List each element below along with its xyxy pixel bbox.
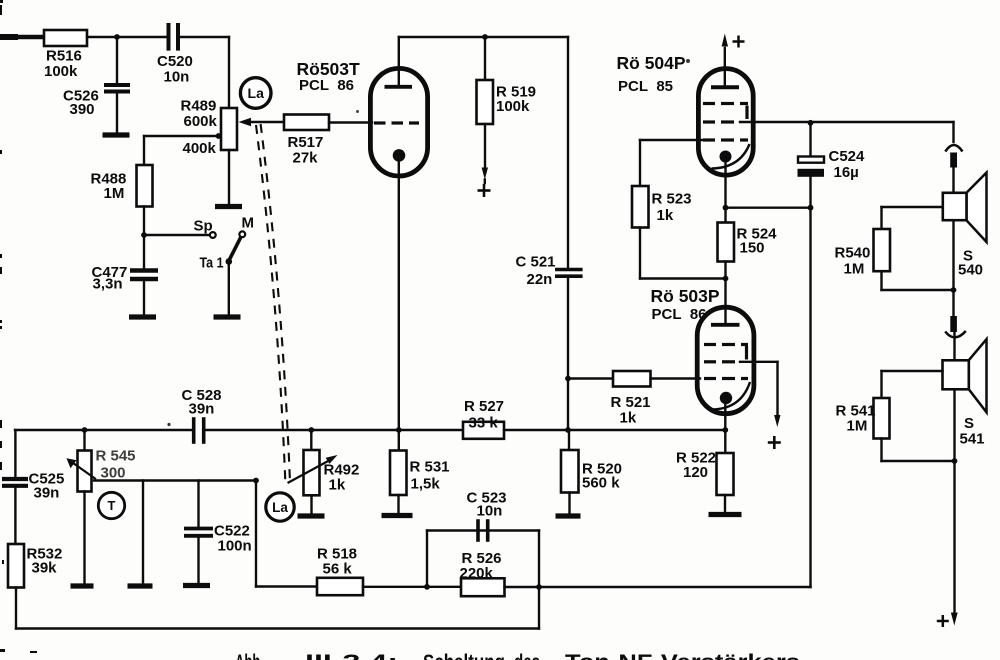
svg-text:des: des — [514, 651, 540, 660]
svg-text:1k: 1k — [329, 477, 346, 494]
svg-text:Ta 1: Ta 1 — [200, 255, 224, 272]
svg-text:150: 150 — [740, 240, 765, 257]
svg-text:R 523: R 523 — [652, 191, 692, 208]
svg-text:39n: 39n — [189, 401, 215, 418]
svg-text:C520: C520 — [157, 53, 193, 70]
svg-text:22n: 22n — [527, 271, 553, 288]
svg-text:120: 120 — [683, 464, 708, 481]
svg-text:300: 300 — [101, 465, 126, 482]
svg-text:PCL 85: PCL 85 — [618, 78, 673, 95]
svg-text:540: 540 — [958, 262, 983, 279]
svg-text:R 545: R 545 — [96, 448, 136, 465]
svg-text:33 k: 33 k — [469, 415, 499, 432]
svg-text:220k: 220k — [460, 565, 494, 582]
svg-text:400k: 400k — [183, 140, 217, 157]
svg-text:PCL 86: PCL 86 — [299, 77, 354, 94]
svg-text:3,3n: 3,3n — [93, 276, 123, 293]
svg-text:Rö 503P: Rö 503P — [651, 286, 720, 306]
svg-text:1k: 1k — [657, 207, 674, 224]
svg-text:PCL 86: PCL 86 — [652, 306, 707, 323]
svg-text:100n: 100n — [218, 538, 252, 555]
svg-text:39n: 39n — [34, 485, 60, 502]
svg-text:560 k: 560 k — [582, 475, 620, 492]
svg-text:R 521: R 521 — [611, 394, 651, 411]
svg-text:100k: 100k — [496, 98, 530, 115]
svg-text:1,5k: 1,5k — [411, 476, 441, 493]
svg-text:Abb.: Abb. — [235, 651, 264, 660]
svg-text:Schaltung: Schaltung — [423, 651, 505, 660]
svg-text:600k: 600k — [184, 113, 218, 130]
svg-text:Ton-NF-Verstärkers: Ton-NF-Verstärkers — [565, 651, 800, 660]
svg-text:S: S — [964, 415, 974, 432]
svg-text:100k: 100k — [44, 63, 78, 80]
svg-text:1M: 1M — [104, 185, 125, 202]
svg-text:R489: R489 — [181, 98, 217, 115]
svg-text:27k: 27k — [293, 150, 319, 167]
svg-text:1M: 1M — [847, 418, 868, 435]
svg-text:C524: C524 — [829, 148, 866, 165]
svg-text:1M: 1M — [844, 261, 865, 278]
svg-text:M: M — [242, 215, 255, 232]
svg-text:10n: 10n — [164, 69, 190, 86]
svg-text:10n: 10n — [477, 503, 503, 520]
svg-text:R 531: R 531 — [410, 459, 450, 476]
svg-text:III-3.4:: III-3.4: — [305, 651, 398, 660]
svg-text:541: 541 — [960, 431, 985, 448]
svg-text:R 527: R 527 — [464, 398, 504, 415]
svg-text:La: La — [272, 500, 288, 515]
svg-text:La: La — [248, 85, 265, 101]
svg-text:Rö 504P: Rö 504P — [617, 53, 686, 73]
svg-text:Rö503T: Rö503T — [297, 59, 361, 79]
svg-text:39k: 39k — [32, 560, 58, 577]
svg-text:R516: R516 — [46, 48, 82, 65]
svg-text:T: T — [108, 498, 116, 513]
svg-text:16µ: 16µ — [834, 164, 859, 181]
svg-text:390: 390 — [70, 101, 95, 118]
svg-text:R540: R540 — [835, 245, 871, 262]
svg-text:C 521: C 521 — [516, 254, 556, 271]
svg-text:R517: R517 — [288, 134, 324, 151]
svg-text:56 k: 56 k — [323, 561, 353, 578]
svg-text:Sp: Sp — [194, 218, 213, 235]
svg-text:1k: 1k — [620, 410, 637, 427]
